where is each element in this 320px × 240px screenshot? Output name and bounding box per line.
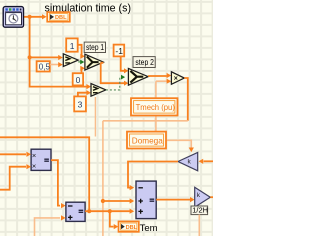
wire junction to summation C plus input 2 <box>103 198 134 203</box>
svg-text:DBL: DBL <box>126 225 138 231</box>
wire select2 output to multiply a <box>148 73 171 78</box>
wire 0,5 to comparator 1 input b <box>50 62 63 67</box>
simulation loop clock icon <box>3 7 23 28</box>
label step 2 <box>133 57 155 68</box>
wire constant1 to select1 t <box>78 45 85 59</box>
label Domega <box>127 132 166 149</box>
wire pale from bottom into block B plus <box>35 215 66 236</box>
svg-text:Tem: Tem <box>140 223 158 234</box>
svg-text:0,5: 0,5 <box>39 62 51 71</box>
svg-text:-1: -1 <box>115 46 123 56</box>
svg-text:DBL: DBL <box>55 15 67 21</box>
node junction omega wire <box>101 199 105 203</box>
constant 1 <box>66 38 78 51</box>
svg-text:×: × <box>174 76 178 83</box>
label Tem <box>140 223 158 234</box>
multiplication block A <box>31 149 51 171</box>
svg-text:0: 0 <box>76 75 81 85</box>
svg-text:1/2H: 1/2H <box>192 205 208 214</box>
node junction Tem B <box>108 209 112 213</box>
svg-text:×: × <box>32 162 36 171</box>
gain left-pointing <box>178 152 198 170</box>
wire to comparator 1 input a <box>30 55 63 60</box>
wire into gain from right edge <box>199 159 213 164</box>
wire boolean comparator2 to select2 s dashed <box>106 75 125 90</box>
wire Tem feedback up and to left edge <box>0 137 89 211</box>
wire pale below 1/2H label <box>198 215 200 236</box>
svg-text:Tmech (pu): Tmech (pu) <box>136 103 176 112</box>
comparator 1 greater-or-equal <box>63 54 78 67</box>
svg-text:step 2: step 2 <box>135 58 154 67</box>
indicator DBL simulation time <box>47 12 70 22</box>
wire into block A input 1 <box>0 152 31 157</box>
wire multiply output Tmech path <box>103 78 188 236</box>
svg-text:step 1: step 1 <box>86 43 104 52</box>
wire omega feedback pale to multiply b <box>156 79 194 153</box>
wire gain output to summation minus <box>128 162 178 191</box>
node junction Tem A <box>87 209 91 213</box>
wire constant3 to comparator2 input b <box>78 90 91 96</box>
comparator 2 greater-or-equal <box>91 84 106 97</box>
svg-text:×: × <box>32 151 36 160</box>
wire pale stub above Tem feedback <box>94 97 96 137</box>
wire constant-1 to select2 t <box>121 56 129 73</box>
summation block B <box>66 202 85 221</box>
wire constant0 to select1 f <box>80 66 85 74</box>
wire gain 1/2H output <box>210 196 213 198</box>
svg-text:1: 1 <box>70 41 75 51</box>
wire into block A input 2 <box>0 164 31 190</box>
constant 0 <box>73 73 83 85</box>
select 2 <box>128 68 148 85</box>
wire Tem junction A to junction B <box>89 210 110 212</box>
wire junction B to summation C plus input <box>110 209 134 214</box>
wire select1 output down to select2 f <box>101 63 129 86</box>
label simulation time <box>45 3 132 15</box>
label 1/2H <box>191 205 208 214</box>
wire sim time horizontal <box>24 14 47 19</box>
label Tmech (pu) <box>131 98 178 115</box>
wire junction down to Tem indicator <box>110 211 119 229</box>
gain 1/2H triangle <box>195 187 211 207</box>
constant -1 <box>114 45 125 57</box>
constant 3 <box>74 96 86 111</box>
constant 0,5 <box>37 61 51 71</box>
wire block A output down to summation B minus <box>51 160 66 208</box>
node junction at top <box>28 15 32 19</box>
select 1 <box>85 54 104 70</box>
svg-text:Domega: Domega <box>132 135 163 145</box>
summation block C <box>136 181 156 219</box>
indicator DBL Tem <box>119 221 139 231</box>
wire to comparator 2 input a <box>30 57 91 89</box>
wire boolean comparator1 to select1 <box>78 60 84 65</box>
wire main vertical drop <box>29 17 31 58</box>
wire summation C output to gain 1/2H <box>156 197 194 202</box>
wire block B output <box>85 210 89 212</box>
multiply node <box>171 72 184 85</box>
node junction mid <box>28 55 32 59</box>
svg-text:3: 3 <box>78 100 83 110</box>
label step 1 <box>84 42 105 52</box>
